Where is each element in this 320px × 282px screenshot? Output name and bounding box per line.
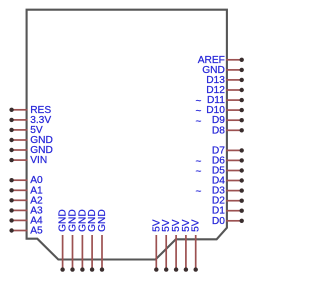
svg-text:D0: D0 bbox=[212, 216, 225, 227]
svg-text:~: ~ bbox=[196, 116, 202, 127]
svg-text:~: ~ bbox=[196, 167, 202, 178]
svg-text:VIN: VIN bbox=[30, 155, 47, 166]
svg-text:GND: GND bbox=[97, 209, 108, 232]
svg-text:D8: D8 bbox=[212, 125, 225, 136]
svg-text:5V: 5V bbox=[191, 219, 202, 232]
svg-text:~: ~ bbox=[196, 187, 202, 198]
svg-text:A5: A5 bbox=[30, 226, 43, 237]
